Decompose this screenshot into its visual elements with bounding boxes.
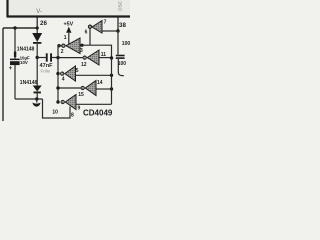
capacitor C3 top plate [116,55,125,57]
left vertical wire (to off-image bottom) [2,28,4,121]
svg-text:9: 9 [78,106,81,112]
bottom ground wire [15,98,43,100]
junction dot B output on bus [56,72,59,75]
diode D2 cathode bar [34,92,41,94]
junction dot output bus node [56,56,59,59]
svg-text:10V: 10V [20,60,28,65]
V- rail wire (top left) [3,27,37,29]
diode D1 cathode bar [33,42,41,44]
wire inverter D input [76,103,112,105]
wire inverter E input [99,57,112,59]
diode D2 triangle [33,86,42,92]
wire inverter E output to bus [58,57,83,59]
ground symbol [32,103,40,107]
capacitor C3 100n wire upper [117,31,119,55]
junction dot E input on bus [110,56,113,59]
junction dot input node [80,44,83,47]
diode D1 cathode wire down [36,44,38,58]
svg-text:1: 1 [64,35,67,41]
output bus vertical wire [57,46,59,102]
svg-text:8: 8 [71,112,74,118]
inverter C triangle (top right) [88,21,102,34]
svg-text:2: 2 [61,49,64,55]
capacitor C1 polarity tick [14,52,16,58]
junction dot F output on bus [56,86,59,89]
svg-text:10: 10 [52,109,58,115]
svg-text:CD4049: CD4049 [83,108,113,117]
junction dot F input on bus [110,87,113,90]
diode D2 anode wire from node A [36,58,38,86]
junction dot B input on bus [110,74,113,77]
wire inverter C output down [89,28,91,45]
svg-text:14: 14 [97,80,103,86]
svg-text:Folie: Folie [41,69,51,74]
inverter F triangle [81,81,96,96]
wire inverter B input [76,74,112,76]
capacitor C2 47nF left wire [37,57,46,59]
inverter D triangle [61,95,76,110]
op-amp N1 inverter A triangle [62,38,80,54]
junction dot ground node [35,97,38,100]
inverter E triangle [83,50,99,65]
svg-text:+5V: +5V [64,22,74,28]
node A junction D1/C2/D2 [36,56,39,59]
svg-text:3: 3 [80,48,83,54]
capacitor C1 wire lower [14,65,16,99]
diode D2 cathode wire [36,93,38,99]
capacitor C2 right wire [52,57,58,59]
wire inverter A input to right bus [80,45,112,58]
capacitor C1 bottom plate (filled) [10,61,20,65]
capacitor C2 right plate [50,53,52,61]
pin 38 stub from chip [117,18,119,32]
right input bus vertical wire [111,58,113,104]
svg-text:7: 7 [104,20,107,26]
junction dot rail/10uF [13,26,16,29]
svg-text:1N4148: 1N4148 [17,47,35,53]
svg-text:V-: V- [36,9,42,15]
capacitor C3 bottom plate [116,57,125,59]
IC box (main chip) body [7,0,131,17]
diode D1 triangle [32,33,42,42]
capacitor C2 left plate [46,53,48,61]
capacitor C1 10uF wire upper [14,28,16,59]
svg-text:100: 100 [122,41,130,47]
svg-text:5: 5 [76,68,79,74]
diode D1 1N4148 anode wire [36,28,38,33]
capacitor C3 wire lower with hook [118,59,124,76]
svg-text:6: 6 [85,30,88,36]
ground symbol stub [36,99,38,103]
VSS return wire down-right [43,99,71,118]
pin 26 stub from chip [36,18,38,29]
wire inverter F output to bus [58,87,81,89]
wire inverter C input to pin38 node [102,30,118,32]
svg-text:15: 15 [78,92,84,98]
inverter A output junction dot [57,44,60,47]
+5V supply arrow [66,27,71,33]
wire inverter A output to bus [58,45,62,47]
svg-text:+: + [9,66,13,72]
svg-text:1N4148: 1N4148 [20,80,38,86]
svg-text:OSC: OSC [118,0,123,11]
svg-text:12: 12 [81,62,87,68]
junction dot D output (bus end) [56,100,59,103]
svg-text:26: 26 [40,20,47,27]
junction dot rail/D1 [36,26,39,29]
inverter B triangle [61,66,76,81]
capacitor C1 top plate [10,59,20,61]
junction dot pin38 node [116,29,119,32]
svg-text:100: 100 [118,61,127,67]
svg-text:4: 4 [62,76,65,82]
svg-text:38: 38 [119,22,126,29]
wire inverter F input [96,88,112,90]
